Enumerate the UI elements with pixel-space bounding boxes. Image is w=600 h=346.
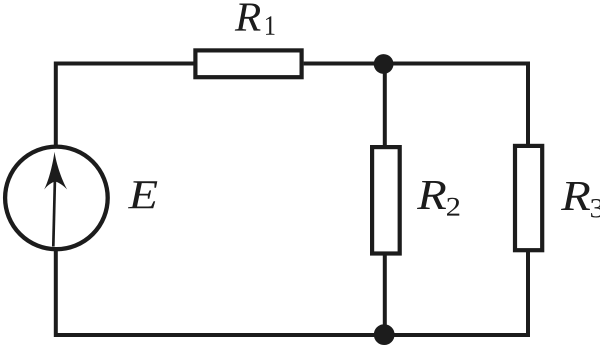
label E [128,181,157,208]
resistor R2 [372,147,400,253]
wire: R1 to node A [304,62,384,66]
label R3 [561,182,600,218]
resistor R3 [515,146,542,250]
wire: source bottom to node B (bottom-left rail) [56,250,384,335]
label R1 [235,4,275,35]
label R2 [417,181,459,216]
wire: node A down to R2 [383,64,387,148]
wire: R3 to node B (bottom-right rail) [384,250,528,335]
node A (top junction) [374,54,394,74]
source E (circle with up arrow) [5,147,108,250]
wire: R2 to node B [383,254,387,336]
node B (bottom junction) [374,324,395,345]
wire: top-left from source to R1 [56,64,194,147]
resistor R1 [195,50,301,77]
wire: node A to R3 (top-right rail) [384,64,528,146]
